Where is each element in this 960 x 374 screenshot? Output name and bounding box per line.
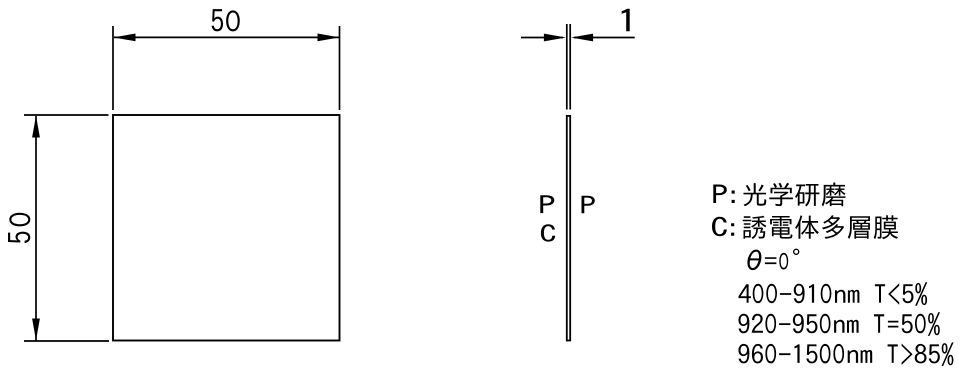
thickness dimension line right segment — [574, 37, 635, 39]
thickness dimension arrowhead pointing right — [544, 34, 566, 42]
side view: thin plate (1mm section) — [567, 116, 570, 341]
extension line bottom of left dimension — [24, 340, 109, 342]
thickness dimension text 1 — [622, 9, 630, 32]
label P on left face of plate — [540, 195, 554, 213]
extension line right of top dimension — [339, 26, 341, 110]
left dimension line — [35, 116, 37, 341]
label P on right face of plate — [582, 196, 595, 214]
extension line left of top dimension — [112, 26, 114, 110]
note line 6: 960-1500nm T>85% — [738, 342, 953, 366]
top dimension arrowhead right — [318, 34, 340, 42]
note line 3: theta = 0 deg — [747, 249, 799, 271]
label C on left face of plate — [541, 224, 555, 241]
front view: square plate outline 50x50 — [113, 115, 340, 341]
top dimension line — [114, 36, 339, 38]
note line 4: 400-910nm T<5% — [739, 282, 928, 306]
extension line right face of plate — [569, 24, 571, 110]
extension line left face of plate — [566, 24, 568, 110]
note line 5: 920-950nm T=50% — [738, 312, 940, 336]
thickness dimension arrowhead pointing left — [571, 34, 593, 42]
note line 1: P:optical polish — [713, 183, 845, 207]
left dimension arrowhead top — [32, 116, 40, 138]
left dimension arrowhead bottom — [32, 319, 40, 341]
top dimension text 50 — [212, 9, 240, 31]
top dimension arrowhead left — [114, 34, 136, 42]
thickness dimension line left segment — [521, 37, 563, 39]
left dimension text 50 (rotated) — [8, 213, 30, 243]
extension line top of left dimension — [24, 114, 109, 116]
note line 2: C:dielectric multilayer coating — [712, 215, 898, 239]
